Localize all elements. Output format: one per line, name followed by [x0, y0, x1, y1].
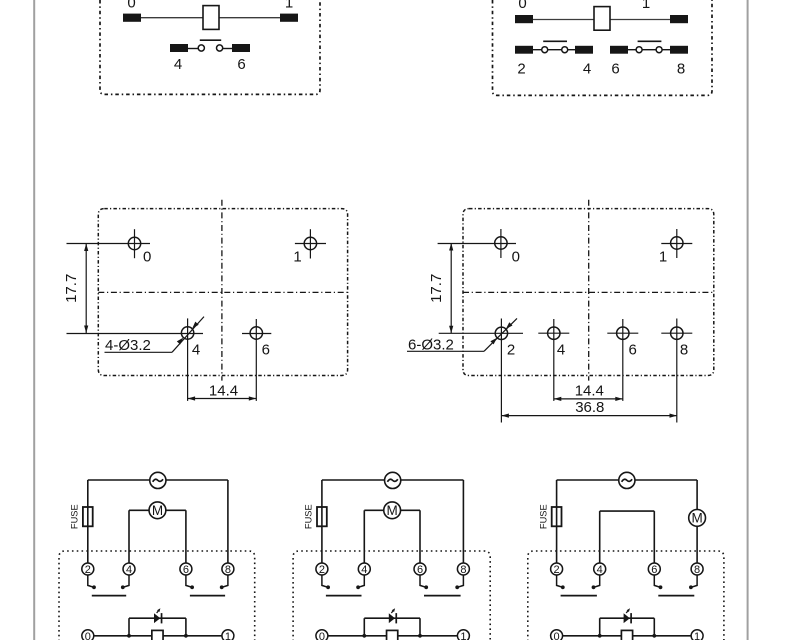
svg-text:8: 8: [225, 564, 231, 576]
wiring B wire terminal 2 riser: [321, 480, 323, 563]
left hole 0: [128, 237, 140, 249]
wiring A terminal 1: [222, 630, 234, 640]
left hole 6 crosshair: [255, 319, 257, 401]
svg-text:2: 2: [554, 564, 560, 576]
K2 wire contact to 4: [568, 49, 577, 51]
wiring A diode branch wire: [129, 617, 186, 619]
wiring B coil bottom wire: [328, 635, 458, 637]
wiring A LED diode: [154, 613, 160, 623]
wiring B terminal 2: [316, 563, 328, 575]
wiring B diode branch wire: [364, 617, 420, 619]
svg-text:1: 1: [225, 631, 231, 640]
left template dimension 14.4: [188, 398, 257, 400]
relay K2 symbol boundary box: [493, 0, 713, 95]
wiring A LED arrow: [157, 610, 159, 613]
wiring A fuse F1: [83, 507, 93, 526]
svg-text:8: 8: [680, 341, 688, 358]
wiring C motor M: [689, 510, 706, 527]
K1 coil: [203, 6, 219, 30]
right template dimension 17.7: [450, 243, 452, 333]
svg-text:0: 0: [512, 248, 520, 265]
wiring B junction dot right: [418, 634, 422, 638]
wiring B contact lead 4: [358, 575, 364, 587]
wiring C contact bar 2-4: [561, 595, 597, 597]
K2 wire contact a mid: [548, 49, 562, 51]
left hole 4: [181, 327, 193, 339]
wiring C terminal 1: [691, 630, 703, 640]
right hole 0 crosshair: [500, 229, 502, 258]
K1 contact bridge bar: [200, 39, 221, 41]
svg-text:6: 6: [237, 56, 245, 73]
svg-text:14.4: 14.4: [575, 382, 604, 399]
wiring B relay coil: [387, 630, 398, 640]
svg-text:0: 0: [518, 0, 526, 12]
K2 wire 6 to contact: [627, 49, 636, 51]
svg-text:FUSE: FUSE: [304, 504, 314, 529]
wiring B diode branch riser left: [363, 618, 365, 636]
wiring C LED arrow: [626, 610, 628, 613]
wiring B terminal 6: [414, 563, 426, 575]
wiring B wire terminal 6 riser: [419, 510, 421, 563]
wiring C bridge wire 4-6: [600, 510, 655, 512]
wiring B LED diode: [389, 613, 395, 623]
svg-text:FUSE: FUSE: [70, 504, 80, 529]
wiring B terminal 1: [457, 630, 469, 640]
left hole 6: [250, 327, 262, 339]
svg-text:0: 0: [319, 631, 325, 640]
left template 17.7 extension line bottom: [67, 333, 204, 335]
K2 coil: [594, 7, 610, 31]
svg-text:2: 2: [517, 61, 525, 78]
page frame left rule: [33, 0, 35, 640]
wiring A coil bottom wire: [94, 635, 222, 637]
left hole 0 crosshair: [134, 229, 136, 258]
wiring A AC source: [150, 472, 166, 488]
wiring B motor M: [364, 509, 383, 511]
wiring A contact lead 8: [222, 575, 228, 587]
K2 contact pole 4: [562, 47, 568, 53]
svg-text:4-Ø3.2: 4-Ø3.2: [105, 337, 151, 354]
K2 contact terminal 6: [610, 46, 628, 54]
wiring C AC source: [619, 472, 635, 488]
wiring C relay coil: [621, 630, 632, 640]
wiring C terminal 6: [648, 563, 660, 575]
svg-text:14.4: 14.4: [209, 382, 238, 399]
wiring A wire terminal 4 riser: [128, 510, 130, 563]
right hole 8: [671, 327, 683, 339]
left template 17.7 extension line top: [67, 243, 151, 245]
wiring C terminal 8: [691, 563, 703, 575]
right template dimension 36.8: [501, 415, 677, 417]
wiring C junction dot left: [598, 634, 602, 638]
svg-text:8: 8: [694, 564, 700, 576]
K2 contact bridge bar a: [543, 40, 567, 42]
svg-text:M: M: [691, 511, 702, 526]
K2 contact terminal 2: [515, 46, 533, 54]
wiring A terminal 8: [222, 563, 234, 575]
wiring C fuse F1: [552, 507, 562, 526]
right hole 2: [495, 327, 507, 339]
right hole 2 crosshair: [500, 319, 502, 423]
wiring C supply top wire: [557, 479, 619, 481]
K2 coil wire 0-1: [524, 19, 679, 21]
svg-text:4: 4: [583, 61, 591, 78]
right hole 4 crosshair: [553, 319, 555, 401]
svg-text:M: M: [152, 503, 163, 518]
wiring C wire terminal 8 riser: [696, 480, 698, 563]
wiring C diode branch wire: [600, 617, 655, 619]
svg-text:36.8: 36.8: [575, 399, 604, 416]
K1 contact terminal 6: [232, 44, 250, 52]
right vertical centerline: [588, 200, 590, 381]
K1 coil wire 0-1: [132, 17, 289, 19]
wiring A contact bar 6-8: [190, 595, 225, 597]
svg-text:6: 6: [183, 564, 189, 576]
wiring C contact lead 4: [594, 575, 600, 587]
wiring B junction dot left: [362, 634, 366, 638]
svg-text:M: M: [387, 503, 398, 518]
svg-text:4: 4: [361, 564, 367, 576]
svg-text:17.7: 17.7: [428, 274, 445, 303]
svg-text:1: 1: [285, 0, 293, 12]
wiring C LED diode: [624, 613, 630, 623]
wiring C diode branch riser right: [653, 618, 655, 636]
wiring B supply top wire: [322, 479, 385, 481]
svg-text:1: 1: [694, 631, 700, 640]
wiring B contact lead 6: [420, 575, 426, 587]
wiring B terminal 4: [358, 563, 370, 575]
wiring C contact lead 2: [557, 575, 563, 587]
svg-text:4: 4: [126, 564, 132, 576]
wiring B terminal 0: [316, 630, 328, 640]
wiring B contact bar 6-8: [424, 595, 461, 597]
right template 17.7 extension line bottom: [439, 332, 523, 334]
right hole 1: [671, 237, 683, 249]
wiring A contact lead 6: [186, 575, 192, 587]
wiring A relay coil: [152, 630, 163, 640]
svg-text:4: 4: [557, 341, 565, 358]
wiring C junction dot right: [652, 634, 656, 638]
wiring A contact lead 4: [123, 575, 129, 587]
K2 contact pole 2: [542, 47, 548, 53]
svg-text:6: 6: [611, 61, 619, 78]
svg-text:4: 4: [174, 56, 182, 73]
K1 contact pole 6: [217, 45, 223, 51]
K1 contact pole 4: [198, 45, 204, 51]
right mounting template outline: [463, 209, 714, 376]
svg-text:6: 6: [629, 341, 637, 358]
wiring A wire terminal 8 riser: [227, 480, 229, 563]
K1 terminal pin 0: [123, 14, 141, 22]
svg-text:1: 1: [460, 631, 466, 640]
svg-text:17.7: 17.7: [63, 274, 80, 303]
right hole 6: [617, 327, 629, 339]
wiring C contact bar 6-8: [658, 595, 694, 597]
wiring A junction dot left: [127, 634, 131, 638]
wiring A wire terminal 6 riser: [185, 510, 187, 563]
right template 17.7 extension line top: [438, 243, 516, 245]
K1 terminal pin 1: [280, 14, 298, 22]
wiring B diode branch riser right: [419, 618, 421, 636]
wiring A contact lead 2: [88, 575, 94, 587]
svg-text:0: 0: [143, 248, 151, 265]
wiring A wire terminal 2 riser: [87, 480, 89, 563]
wiring B wire terminal 4 riser: [363, 510, 365, 563]
K2 wire contact to 8: [662, 49, 671, 51]
svg-text:6: 6: [417, 564, 423, 576]
wiring C contact lead 8: [691, 575, 697, 587]
svg-text:2: 2: [507, 341, 515, 358]
wiring A terminal 0: [82, 630, 94, 640]
K2 contact pole 6: [636, 47, 642, 53]
wiring B AC source: [385, 472, 401, 488]
K2 contact terminal 4: [575, 46, 593, 54]
wiring C coil bottom wire: [563, 635, 692, 637]
svg-text:0: 0: [85, 631, 91, 640]
wiring C terminal 4: [594, 563, 606, 575]
wiring A terminal 2: [82, 563, 94, 575]
K2 wire contact b mid: [642, 49, 656, 51]
wiring B wire terminal 8 riser: [462, 480, 464, 563]
wiring C diode branch riser left: [599, 618, 601, 636]
K2 contact pole 8: [656, 47, 662, 53]
left hole 1 crosshair: [309, 229, 311, 258]
wiring B terminal 8: [457, 563, 469, 575]
left horizontal centerline: [98, 291, 347, 293]
wiring C socket outline dotted box: [528, 551, 724, 640]
right hole 0: [495, 237, 507, 249]
svg-text:1: 1: [642, 0, 650, 12]
left hole 4 crosshair: [187, 318, 189, 401]
wiring C wire terminal 2 riser: [556, 480, 558, 563]
wiring A diode branch riser left: [128, 618, 130, 636]
svg-text:2: 2: [85, 564, 91, 576]
svg-text:0: 0: [554, 631, 560, 640]
wiring C contact lead 6: [654, 575, 660, 587]
wiring A contact bar 2-4: [92, 595, 126, 597]
K2 terminal pin 0: [515, 15, 533, 23]
right hole 1 crosshair: [676, 229, 678, 258]
wiring B socket outline dotted box: [293, 551, 490, 640]
wiring A supply top wire: [88, 479, 150, 481]
K2 contact terminal 8: [670, 46, 688, 54]
svg-text:0: 0: [127, 0, 135, 12]
right template dimension 14.4: [554, 398, 623, 400]
wiring A terminal 4: [123, 563, 135, 575]
right horizontal centerline: [463, 291, 714, 293]
right hole 4: [548, 327, 560, 339]
wiring C wire terminal 6 riser: [653, 511, 655, 563]
wiring C terminal 2: [551, 563, 563, 575]
left mounting template outline: [98, 209, 347, 376]
svg-text:8: 8: [460, 564, 466, 576]
wiring B contact lead 8: [457, 575, 463, 587]
K2 terminal pin 1: [670, 15, 688, 23]
K1 contact terminal 4: [170, 44, 188, 52]
K2 contact bridge bar b: [638, 40, 662, 42]
wiring A socket outline dotted box: [59, 551, 255, 640]
wiring A motor M: [129, 509, 149, 511]
right hole 6 crosshair: [622, 319, 624, 401]
wiring B contact bar 2-4: [326, 595, 362, 597]
svg-text:FUSE: FUSE: [538, 504, 548, 529]
wiring B contact lead 2: [322, 575, 328, 587]
svg-text:1: 1: [659, 248, 667, 265]
svg-text:1: 1: [293, 248, 301, 265]
wiring C terminal 0: [551, 630, 563, 640]
wiring A terminal 6: [180, 563, 192, 575]
svg-text:4: 4: [192, 341, 200, 358]
svg-text:4: 4: [597, 564, 603, 576]
svg-text:6: 6: [262, 341, 270, 358]
K1 wire 4 to contact: [187, 48, 198, 50]
K2 wire 2 to contact: [532, 49, 542, 51]
svg-text:6: 6: [651, 564, 657, 576]
K1 wire contact to 6: [223, 48, 233, 50]
wiring A junction dot right: [184, 634, 188, 638]
page frame right rule: [747, 0, 749, 640]
right hole 8 crosshair: [676, 319, 678, 423]
left template dimension 17.7: [85, 244, 87, 334]
wiring A diode branch riser right: [185, 618, 187, 636]
wiring B LED arrow: [391, 610, 393, 613]
wiring B fuse F1: [317, 507, 327, 526]
svg-text:2: 2: [319, 564, 325, 576]
left vertical centerline: [221, 200, 223, 381]
relay K1 symbol boundary box: [100, 0, 320, 94]
left hole 1: [304, 237, 316, 249]
svg-text:8: 8: [677, 61, 685, 78]
wiring C wire terminal 4 riser: [599, 511, 601, 563]
